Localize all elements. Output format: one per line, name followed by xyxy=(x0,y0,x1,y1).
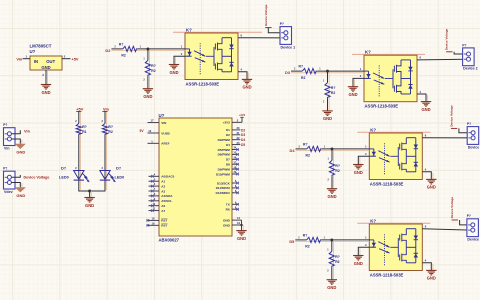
svg-text:D?: D? xyxy=(61,165,67,170)
svg-text:31: 31 xyxy=(237,131,240,135)
ground GND at K2 pin2 xyxy=(348,87,358,97)
svg-text:D4: D4 xyxy=(226,143,230,147)
wire resistor to relay K1 pin1 xyxy=(138,48,185,50)
svg-text:K?: K? xyxy=(365,50,371,55)
svg-text:GND: GND xyxy=(143,94,152,99)
svg-text:D4: D4 xyxy=(290,148,296,153)
svg-text:GND: GND xyxy=(85,203,94,208)
pin D13/SCK (no connect) xyxy=(217,180,239,185)
resistor R2 series xyxy=(114,42,141,57)
pin D11/MOSI (no connect) xyxy=(216,185,239,190)
ground GND at K4 pin2 xyxy=(353,256,363,266)
wire D4 to resistor xyxy=(296,149,370,151)
svg-text:RST: RST xyxy=(161,219,167,223)
junction at resistor divider xyxy=(330,238,333,241)
svg-text:R2: R2 xyxy=(151,69,155,73)
svg-text:19: 19 xyxy=(237,221,240,225)
svg-text:Vin: Vin xyxy=(24,129,31,134)
svg-text:ASSR-1218-503E: ASSR-1218-503E xyxy=(186,81,220,86)
pin RX (no connect) xyxy=(226,206,239,211)
svg-text:D12/MISO: D12/MISO xyxy=(216,191,231,195)
svg-text:+3V3: +3V3 xyxy=(239,113,246,117)
ground GND at K4 pin4 xyxy=(426,270,436,280)
svg-text:Device Voltage: Device Voltage xyxy=(450,105,454,127)
svg-text:Device 1: Device 1 xyxy=(281,45,296,49)
ground GND below P1 xyxy=(15,144,26,155)
ground GND at K2 pin4 xyxy=(421,102,431,112)
svg-text:A2: A2 xyxy=(161,184,165,188)
svg-text:D5/PWM: D5/PWM xyxy=(218,148,231,152)
ground GND at K3 pin4 xyxy=(426,179,436,189)
svg-text:A0/DAC0: A0/DAC0 xyxy=(161,175,174,179)
resistor R6 series xyxy=(299,142,326,157)
wire relay K2 pin4 to ground xyxy=(417,94,428,102)
resistor R5 pulldown xyxy=(323,71,335,111)
svg-text:ASSR-1218-503E: ASSR-1218-503E xyxy=(370,181,404,186)
pin D5/PWM (no connect) xyxy=(232,147,239,151)
salmon bus line above relay K4 xyxy=(357,222,430,224)
svg-text:D6/PWM: D6/PWM xyxy=(218,153,231,157)
wire Device Voltage to Device 2 pin1 xyxy=(454,52,466,54)
connector Device 3 xyxy=(467,122,480,149)
LED D? LED0 (device) xyxy=(100,165,124,182)
svg-text:R2: R2 xyxy=(331,91,335,95)
svg-text:R?: R? xyxy=(303,233,308,237)
svg-text:R?: R? xyxy=(335,164,340,168)
svg-text:30: 30 xyxy=(237,126,240,130)
svg-text:A5/SCL: A5/SCL xyxy=(161,199,172,203)
relay K1 ASSR-1218-503E xyxy=(181,27,243,86)
power port Device Voltage for Device 2 xyxy=(445,28,453,51)
svg-text:P?: P? xyxy=(467,122,471,126)
pin D7 (no connect) xyxy=(232,157,239,161)
pin AREF 1 xyxy=(148,139,170,145)
svg-text:LED0: LED0 xyxy=(115,176,125,180)
pin VIN 17 xyxy=(148,119,167,125)
pin D2 with net label D3 xyxy=(232,131,245,137)
svg-text:U?: U? xyxy=(30,49,36,54)
svg-text:A3: A3 xyxy=(161,189,165,193)
pin D6/PWM (no connect) xyxy=(232,152,239,156)
wire resistor to relay K4 pin1 xyxy=(322,239,370,241)
wire junction to GND xyxy=(89,191,91,198)
junction at resistor divider xyxy=(326,70,329,73)
wire relay K1 pin2 to ground xyxy=(174,56,185,64)
svg-text:P?: P? xyxy=(280,22,284,26)
svg-text:A6: A6 xyxy=(161,204,165,208)
svg-text:D3: D3 xyxy=(241,133,245,137)
power port Device Voltage for Device 1 xyxy=(264,4,272,27)
wire P1 pin2 to ground xyxy=(12,139,22,144)
svg-text:ABX00027: ABX00027 xyxy=(159,237,180,242)
svg-text:GND: GND xyxy=(41,65,50,70)
svg-text:R2: R2 xyxy=(301,76,305,80)
wire relay K4 pin4 to ground xyxy=(422,263,433,271)
ground GND below P2 xyxy=(15,187,26,198)
svg-text:ASSR-1218-503E: ASSR-1218-503E xyxy=(365,104,399,109)
pin RST (no connect) xyxy=(147,221,168,227)
svg-text:D7: D7 xyxy=(226,158,230,162)
svg-text:TX: TX xyxy=(226,203,230,207)
wire relay K2 pin2 to ground xyxy=(353,78,364,86)
svg-text:A7: A7 xyxy=(161,209,165,213)
junction at resistor divider xyxy=(331,147,334,150)
wire relay K3 pin4 to ground xyxy=(422,172,433,180)
power port Vin above device LED xyxy=(102,106,109,111)
svg-text:P?: P? xyxy=(462,43,466,47)
svg-text:R?: R? xyxy=(151,64,156,68)
svg-text:Device Voltage: Device Voltage xyxy=(24,175,50,179)
svg-text:Device 3: Device 3 xyxy=(468,145,480,149)
svg-text:D2: D2 xyxy=(241,128,245,132)
salmon bus line above relay K2 xyxy=(352,53,425,55)
ground GND below pulldown xyxy=(143,89,153,99)
svg-text:+3V3: +3V3 xyxy=(223,121,231,125)
svg-text:LM7805CT: LM7805CT xyxy=(30,44,52,49)
svg-text:GND: GND xyxy=(223,218,231,222)
svg-text:K?: K? xyxy=(370,218,376,223)
svg-text:GND: GND xyxy=(354,261,363,266)
svg-text:+5V: +5V xyxy=(76,106,83,111)
svg-text:VIN: VIN xyxy=(161,121,166,125)
wire Device Voltage to Device 1 pin1 xyxy=(268,28,284,33)
svg-text:D8: D8 xyxy=(226,163,230,167)
svg-text:P?: P? xyxy=(3,123,7,127)
wire resistor to relay K3 pin1 xyxy=(322,148,370,150)
svg-text:R?: R? xyxy=(335,255,340,259)
pin A6 (no connect) xyxy=(149,203,166,208)
ground GND at K1 pin2 xyxy=(169,65,179,75)
power port Device Voltage for Device 3 xyxy=(450,105,458,128)
svg-text:GND: GND xyxy=(242,85,251,90)
svg-text:12: 12 xyxy=(148,129,151,133)
ground GND below pulldown xyxy=(322,111,332,121)
svg-text:GND: GND xyxy=(237,236,246,241)
svg-text:D3: D3 xyxy=(285,70,291,75)
svg-text:GND: GND xyxy=(427,276,436,281)
svg-text:Device Voltage: Device Voltage xyxy=(264,4,268,26)
relay K4 ASSR-1218-503E xyxy=(365,218,427,277)
svg-text:A4/SDA: A4/SDA xyxy=(161,194,173,198)
junction at resistor divider xyxy=(146,47,149,50)
svg-text:R?: R? xyxy=(119,42,124,46)
resistor R8 series xyxy=(298,233,325,248)
wire relay K4 pin2 to ground xyxy=(358,247,369,255)
wire Vin to U1 pin1 xyxy=(23,55,31,59)
svg-text:D4: D4 xyxy=(241,138,245,142)
pin D9/PWM (no connect) xyxy=(232,166,239,170)
svg-text:GND: GND xyxy=(16,150,25,155)
pin D12/MISO (no connect) xyxy=(216,190,239,195)
pin GND pads of U2 xyxy=(223,216,241,227)
wire resistor to relay K2 pin1 xyxy=(317,70,364,72)
ground GND below LEDs xyxy=(84,198,94,208)
svg-text:Vin: Vin xyxy=(4,147,10,151)
pin A7 (no connect) xyxy=(149,208,166,213)
power port +5V above power LED xyxy=(76,106,84,111)
svg-text:K?: K? xyxy=(370,127,376,132)
pin D4 with net label D5 xyxy=(232,141,245,147)
connector P1 Vin input xyxy=(3,123,15,150)
pin D3/PWM with net label D4 xyxy=(232,136,245,142)
svg-text:GND: GND xyxy=(223,223,231,227)
pin D1 with net label D2 xyxy=(232,126,245,132)
svg-text:D13/SCK: D13/SCK xyxy=(217,181,231,185)
svg-text:14: 14 xyxy=(237,216,240,220)
resistor R4 series xyxy=(294,65,321,80)
pin A2 (no connect) xyxy=(149,183,166,188)
connector Device 4 xyxy=(467,214,480,241)
pin +3V3 power port xyxy=(223,113,246,125)
microcontroller U2 ABX00027 xyxy=(159,113,233,243)
resistor R3 pulldown xyxy=(143,49,155,89)
wire D2 to resistor xyxy=(111,49,185,51)
wire Device Voltage to Device 3 pin1 xyxy=(459,128,471,132)
svg-text:Device Voltage: Device Voltage xyxy=(450,197,454,219)
svg-text:R2: R2 xyxy=(305,245,309,249)
connector P2 Vdev input xyxy=(3,167,15,194)
svg-text:ASSR-1218-503E: ASSR-1218-503E xyxy=(370,272,404,277)
svg-text:R?: R? xyxy=(331,86,336,90)
svg-text:GND: GND xyxy=(41,90,50,95)
pin TX (no connect) xyxy=(226,202,239,207)
wire P2 pin2 to ground xyxy=(12,183,22,188)
svg-text:GND: GND xyxy=(327,285,336,290)
resistor R1 for power LED xyxy=(75,111,86,190)
resistor R2 for device LED xyxy=(102,111,113,190)
svg-text:Device Voltage: Device Voltage xyxy=(445,28,449,50)
relay K2 ASSR-1218-503E xyxy=(360,50,422,109)
svg-text:RX: RX xyxy=(226,208,230,212)
svg-text:R2: R2 xyxy=(121,54,125,58)
svg-text:D10/PWM: D10/PWM xyxy=(216,172,230,176)
connector Device 1 xyxy=(280,22,295,49)
wire LED cathode to gnd rail xyxy=(90,181,105,192)
svg-text:GND: GND xyxy=(323,116,332,121)
wire relay K3 pin2 to ground xyxy=(358,156,369,164)
svg-text:D11/MOSI: D11/MOSI xyxy=(216,186,230,190)
svg-text:D5: D5 xyxy=(241,143,245,147)
svg-text:GND: GND xyxy=(327,194,336,199)
wire relay K4 pin6 to device connector xyxy=(422,229,471,230)
wire LED cathode to gnd rail xyxy=(79,181,90,192)
pin A3 (no connect) xyxy=(149,188,166,193)
wire U1 GND pin3 down xyxy=(42,70,47,85)
connector Device 2 xyxy=(462,43,477,70)
svg-text:R?: R? xyxy=(303,142,308,146)
svg-text:Vdev: Vdev xyxy=(4,190,13,194)
svg-text:RST: RST xyxy=(161,224,167,228)
pin A1 (no connect) xyxy=(149,178,166,183)
svg-text:Device 2: Device 2 xyxy=(463,67,478,71)
svg-text:K?: K? xyxy=(186,27,192,32)
wire R2 to LED xyxy=(104,136,106,171)
svg-text:17: 17 xyxy=(151,119,154,123)
svg-text:R2: R2 xyxy=(306,154,310,158)
svg-text:R2: R2 xyxy=(335,169,339,173)
junction U2 GND xyxy=(240,224,242,226)
ground GND at K1 pin4 xyxy=(242,79,252,89)
svg-text:GND: GND xyxy=(427,185,436,190)
svg-text:IN: IN xyxy=(34,59,38,64)
ground GND below pulldown xyxy=(327,280,337,290)
svg-text:R?: R? xyxy=(299,65,304,69)
ground GND below pulldown xyxy=(327,189,337,199)
ground GND below U2 xyxy=(236,231,246,241)
wire R1 to LED xyxy=(78,136,80,171)
svg-text:P?: P? xyxy=(3,167,7,171)
ground GND at K3 pin2 xyxy=(353,165,363,175)
svg-text:OUT: OUT xyxy=(46,59,55,64)
pin D10/PWM (no connect) xyxy=(232,171,239,175)
pin A0/DAC0 (no connect) xyxy=(149,173,175,178)
svg-text:P?: P? xyxy=(467,214,471,218)
pin A4/SDA (no connect) xyxy=(149,193,174,198)
resistor R9 pulldown xyxy=(327,240,339,280)
svg-text:A1: A1 xyxy=(161,180,165,184)
wire relay K1 pin6 to device connector xyxy=(238,37,284,39)
voltage regulator U1 LM7805CT xyxy=(30,44,63,70)
net label 5V / pin VUSB 12 xyxy=(140,129,171,135)
svg-text:33: 33 xyxy=(237,141,240,145)
svg-text:AREF: AREF xyxy=(161,142,169,146)
svg-text:Device 4: Device 4 xyxy=(467,238,480,242)
wire D5 to resistor xyxy=(295,240,369,242)
svg-text:D5: D5 xyxy=(289,239,295,244)
svg-text:+5V: +5V xyxy=(72,57,79,62)
svg-text:VUSB: VUSB xyxy=(161,131,170,135)
svg-text:R?: R? xyxy=(108,125,113,129)
svg-text:GND: GND xyxy=(354,170,363,175)
svg-text:R2: R2 xyxy=(108,130,112,134)
svg-text:GND: GND xyxy=(16,193,25,198)
svg-text:R?: R? xyxy=(82,125,87,129)
salmon bus line above relay K3 xyxy=(357,131,430,133)
wire relay K3 pin6 to device connector xyxy=(422,137,471,139)
svg-text:D3/PWM: D3/PWM xyxy=(218,138,231,142)
svg-text:LED0: LED0 xyxy=(59,176,69,180)
wire D3 to resistor xyxy=(291,71,364,73)
svg-text:R1: R1 xyxy=(82,130,86,134)
svg-text:GND: GND xyxy=(169,70,178,75)
svg-text:GND: GND xyxy=(348,92,357,97)
wire P2 pin1 to Device Voltage label xyxy=(12,175,21,177)
wire relay K2 pin6 to device connector xyxy=(417,58,467,61)
svg-text:D2: D2 xyxy=(226,133,230,137)
svg-text:32: 32 xyxy=(237,136,240,140)
LED D? LED0 (power) xyxy=(59,165,89,182)
resistor R7 pulldown xyxy=(328,149,340,189)
salmon bus line above relay K1 xyxy=(173,31,262,33)
pin RST (no connect) xyxy=(147,217,168,223)
svg-text:R2: R2 xyxy=(335,260,339,264)
svg-text:D1: D1 xyxy=(226,128,230,132)
junction LED gnd rail xyxy=(88,190,91,193)
wire U2 GND join xyxy=(242,220,244,231)
ground GND below U1 xyxy=(41,85,51,95)
wire Device Voltage to Device 4 pin1 xyxy=(460,220,471,225)
svg-text:D9/PWM: D9/PWM xyxy=(218,167,231,171)
power port Device Voltage for Device 4 xyxy=(450,197,458,220)
wire U1 pin2 to +5V xyxy=(62,55,71,59)
pin A5/SCL (no connect) xyxy=(149,198,173,203)
svg-text:D2: D2 xyxy=(105,48,111,53)
svg-text:GND: GND xyxy=(421,107,430,112)
svg-text:Vin: Vin xyxy=(16,57,23,62)
svg-text:D?: D? xyxy=(116,165,122,170)
wire relay K1 pin4 to ground xyxy=(238,72,249,80)
svg-text:Vin: Vin xyxy=(103,106,110,111)
svg-text:U?: U? xyxy=(159,113,165,118)
pin D8 (no connect) xyxy=(232,161,239,165)
wire P1 pin1 to Vin label xyxy=(12,130,21,134)
relay K3 ASSR-1218-503E xyxy=(365,127,427,186)
